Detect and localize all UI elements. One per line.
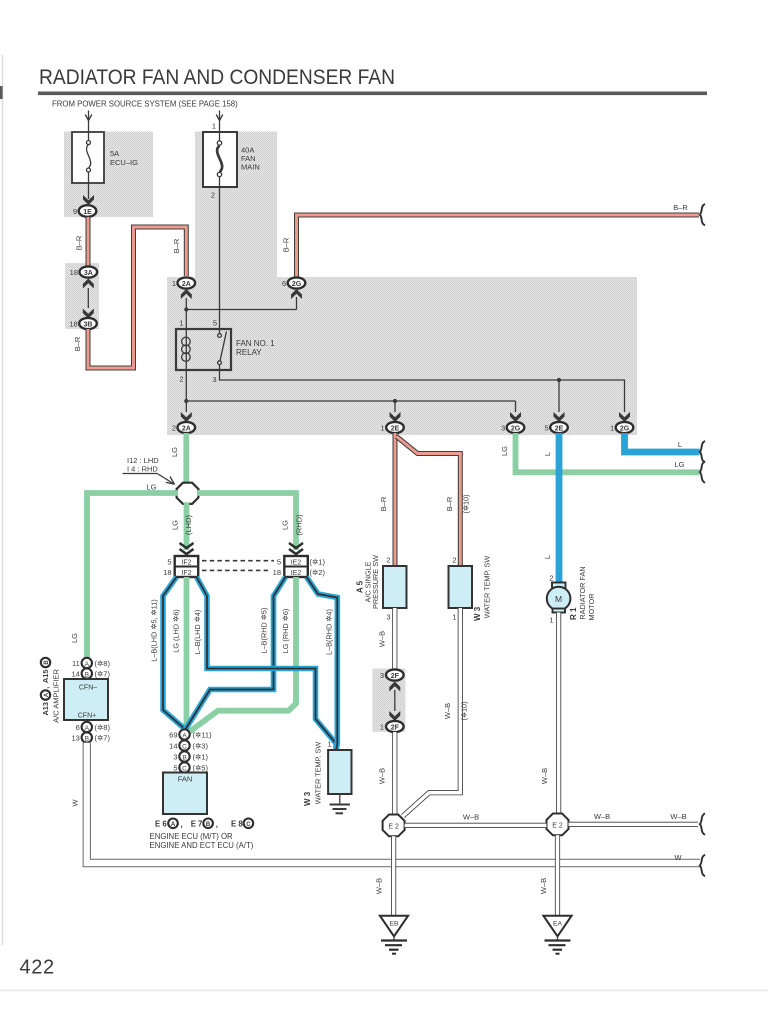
svg-text:1: 1 (380, 723, 384, 732)
svg-text:W–B: W–B (540, 768, 549, 784)
svg-text:5: 5 (213, 319, 217, 328)
svg-text:L: L (543, 555, 552, 559)
svg-text:6: 6 (282, 279, 286, 288)
wire LG octagon left to A/C amplifier (87, 493, 178, 658)
svg-text:(✲2): (✲2) (310, 568, 326, 577)
wire relay pin2 down to 2A pin2 with branch to 2G pin3 (186, 370, 515, 412)
svg-text:FAN NO. 1: FAN NO. 1 (236, 339, 275, 348)
svg-text:W–B: W–B (463, 813, 479, 822)
shade behind 2F connectors (372, 669, 405, 732)
connector 2A pin 2 (178, 422, 196, 433)
wire W-B 2F pin1 to E2 (392, 732, 397, 815)
wire 2A pin1 to relay pin 1 with junction to 2G pin 6 (186, 297, 296, 329)
svg-text:A: A (85, 725, 90, 732)
fuse 40A FAN MAIN (203, 132, 237, 187)
svg-text:W–B: W–B (594, 812, 610, 821)
svg-text:C: C (246, 822, 251, 828)
svg-text:(✲5): (✲5) (193, 764, 209, 773)
wire W-B E2 right to off page (569, 822, 699, 827)
svg-text:W–B: W–B (443, 703, 452, 719)
svg-text:E 2: E 2 (552, 822, 563, 829)
A/C amplifier pin 6 A (82, 722, 92, 732)
svg-text:FAN: FAN (178, 775, 193, 784)
junction node octagon I12/I4 (177, 483, 199, 504)
svg-text:5: 5 (167, 558, 171, 567)
wire LG RHD+6 IE2 to ECU pin A (187, 577, 296, 734)
svg-text:W 3: W 3 (473, 606, 482, 621)
svg-text:2: 2 (386, 556, 390, 565)
W3 water temp switch box lower (328, 750, 351, 794)
svg-text:3: 3 (386, 613, 390, 622)
svg-text:2: 2 (452, 556, 456, 565)
svg-text:E 2: E 2 (388, 823, 399, 830)
svg-text:(✲3): (✲3) (193, 742, 209, 751)
connector 3A (80, 266, 98, 277)
svg-text:3: 3 (501, 424, 505, 433)
svg-text:(✲10): (✲10) (460, 701, 469, 720)
arrow up into 3A (83, 279, 94, 289)
svg-text:3: 3 (212, 375, 216, 384)
wire B-R 2G pin 6 to off page (297, 215, 700, 277)
off page curl LG (700, 461, 705, 482)
svg-text:L: L (678, 440, 682, 449)
svg-text:W–B: W–B (539, 878, 548, 894)
svg-text:EB: EB (389, 921, 399, 928)
svg-text:B: B (85, 671, 89, 678)
svg-text:422: 422 (20, 957, 55, 979)
svg-text:5: 5 (173, 764, 177, 773)
wire L 2G pin1 to off page (625, 433, 700, 452)
wire L-B RHD+4 to water temp switch (307, 577, 338, 750)
svg-text:1: 1 (610, 424, 614, 433)
svg-text:MOTOR: MOTOR (587, 593, 596, 620)
arrow down into 2F pin1 (389, 711, 400, 721)
svg-text:(RHD): (RHD) (295, 514, 304, 536)
svg-text:A/C AMPLIFIER: A/C AMPLIFIER (52, 669, 61, 723)
wire LG octagon right to IE2 (197, 493, 296, 550)
svg-text:69: 69 (169, 731, 177, 740)
svg-text:MAIN: MAIN (241, 163, 260, 172)
ECU pin 14 C (179, 740, 189, 750)
svg-text:L–B(LHD ✲4): L–B(LHD ✲4) (193, 610, 202, 655)
svg-text:WATER TEMP. SW: WATER TEMP. SW (314, 742, 323, 805)
ECU pin 5 C (179, 762, 189, 772)
svg-text:W: W (71, 799, 80, 807)
ECU FAN box (163, 773, 207, 815)
svg-text:LG: LG (170, 447, 179, 457)
svg-text:5A: 5A (110, 149, 119, 158)
svg-text:2G: 2G (511, 425, 521, 432)
svg-text:1: 1 (549, 616, 553, 625)
wire B-R 3B loop to 2A pin 1 (88, 227, 186, 368)
arrow up into 2F pin3 (389, 682, 400, 692)
svg-text:L: L (543, 452, 552, 456)
svg-text:3B: 3B (84, 321, 93, 328)
connector 2F pin 3 (386, 669, 404, 680)
wire W-B motor to E2 (556, 613, 561, 814)
junction dot 2E pin1 branch (393, 399, 397, 403)
A/C amplifier pin 11 A (82, 658, 92, 668)
wire W from A/C amplifier to off page (87, 743, 700, 863)
svg-text:B–R: B–R (445, 496, 454, 511)
svg-text:B–R: B–R (75, 235, 84, 250)
relay coil (182, 329, 191, 370)
arrow down into 2E pin1 (390, 412, 401, 422)
wire L-B RHD+5 (185, 577, 286, 730)
svg-text:E 8: E 8 (231, 819, 243, 828)
wire L-B LHD+4 to water temp switch (197, 577, 337, 750)
arrow up into 2A pin1 bottom (181, 289, 192, 299)
svg-text:1: 1 (452, 613, 456, 622)
svg-text:18: 18 (70, 268, 78, 277)
svg-text:1: 1 (179, 319, 183, 328)
svg-text:W–B: W–B (670, 812, 686, 821)
svg-text:(LHD): (LHD) (184, 514, 193, 535)
off page curl B-R (700, 204, 705, 225)
svg-text:W: W (674, 853, 682, 862)
svg-text:PRESSURE SW: PRESSURE SW (371, 555, 380, 609)
ground EB (380, 916, 408, 954)
svg-text:B: B (206, 822, 211, 828)
svg-text:CFN–: CFN– (79, 685, 97, 692)
node E2 left octagon (383, 815, 405, 837)
svg-text:(✲11): (✲11) (193, 731, 213, 740)
svg-text:18: 18 (273, 568, 281, 577)
svg-text:LG: LG (500, 446, 509, 456)
arrow down into 2G pin1 (619, 412, 630, 422)
svg-text:I 4 : RHD: I 4 : RHD (127, 465, 158, 474)
svg-text:,: , (181, 820, 183, 829)
svg-text:A13: A13 (41, 702, 50, 715)
wire W-B A5 to 2F pin3 (392, 608, 397, 670)
svg-text:18: 18 (163, 568, 171, 577)
off page curl L (700, 441, 705, 462)
svg-text:W–B: W–B (378, 631, 387, 647)
svg-text:LG: LG (70, 633, 79, 643)
svg-text:1: 1 (327, 740, 331, 749)
svg-text:A: A (85, 661, 90, 668)
svg-text:ENGINE AND ECT ECU (A/T): ENGINE AND ECT ECU (A/T) (150, 841, 254, 850)
svg-text:(✲7): (✲7) (95, 734, 111, 743)
junction dot (184, 307, 188, 311)
scan left edge line (2, 55, 4, 945)
svg-text:5: 5 (277, 558, 281, 567)
wire L-B LHD+5+11 (163, 577, 186, 730)
wire W-B W3 to E2 (403, 608, 460, 816)
wire B-R 2E pin1 to A5 pressure switch and W3 water temp switch (393, 433, 398, 566)
svg-text:14: 14 (169, 742, 177, 751)
svg-text:2F: 2F (391, 673, 400, 680)
shade behind 5A fuse (64, 132, 153, 218)
connector 2G pin 3 (507, 422, 525, 433)
A/C amplifier pin 13 B (82, 732, 92, 742)
arrow down into 3B (83, 309, 94, 319)
svg-text:IF2: IF2 (181, 560, 191, 567)
svg-text:6: 6 (76, 723, 80, 732)
connector 2E pin 5 (550, 422, 568, 433)
connector 2F pin 1 (386, 721, 404, 732)
svg-text:WATER TEMP. SW: WATER TEMP. SW (483, 556, 492, 619)
double chevron arrow into IE2 (289, 543, 303, 554)
shade big relay area (167, 277, 637, 435)
wire W-B E2 right to ground EA (555, 835, 560, 916)
connector IE2 (284, 556, 308, 577)
wire B-R 1E to 3A (86, 217, 91, 267)
svg-text:1: 1 (381, 424, 385, 433)
svg-text:LG (LHD ✲6): LG (LHD ✲6) (172, 609, 181, 652)
svg-text:2: 2 (172, 424, 176, 433)
fuse 5A ECU-IG (72, 132, 104, 183)
svg-text:5: 5 (545, 424, 549, 433)
svg-text:(✲1): (✲1) (193, 753, 209, 762)
wire W-B E2 left to ground EB (391, 836, 396, 916)
svg-text:3: 3 (380, 671, 384, 680)
wire 2F3 to 2F1 (394, 690, 396, 711)
svg-text:L–B(RHD ✲4): L–B(RHD ✲4) (325, 609, 334, 655)
arrow into 1E (83, 195, 94, 205)
svg-text:B: B (182, 754, 186, 761)
svg-text:(✲8): (✲8) (95, 723, 111, 732)
svg-text:9: 9 (73, 207, 77, 216)
W3 water temp switch box upper (449, 566, 473, 608)
junction dot 2E pin5 branch (557, 378, 561, 382)
svg-text:W–B: W–B (378, 768, 387, 784)
shade behind 40A fuse (195, 132, 277, 278)
svg-text:ENGINE ECU (M/T) OR: ENGINE ECU (M/T) OR (150, 832, 234, 841)
svg-text:A: A (171, 822, 176, 828)
svg-text:(✲10): (✲10) (462, 494, 471, 513)
note I12 LHD I4 RHD (123, 456, 175, 484)
relay switch (218, 329, 227, 370)
svg-text:C: C (182, 743, 187, 750)
svg-text:A: A (44, 692, 50, 697)
off page curl W (700, 855, 705, 876)
wire W-B between E2 nodes (405, 823, 547, 828)
svg-text:2E: 2E (555, 425, 564, 432)
svg-text:L–B(LHD ✲5, ✲11): L–B(LHD ✲5, ✲11) (150, 599, 159, 661)
connector 3B (79, 318, 97, 329)
dashed links IF2 to IE2 (202, 560, 274, 562)
wire 3A to 3B (87, 288, 89, 308)
A5 A/C single pressure switch box (383, 566, 407, 608)
svg-text:3A: 3A (84, 270, 93, 277)
svg-text:E 6: E 6 (155, 819, 167, 828)
ground EA (543, 916, 571, 954)
wire L 2E pin5 to radiator fan motor (556, 433, 563, 583)
wire LG 2A pin2 to junction octagon (183, 433, 189, 484)
wire from 5A fuse to 1E (88, 183, 90, 199)
connector 1E (79, 205, 97, 217)
ECU pin 69 A (179, 729, 189, 739)
shade behind 3A 3B connectors (65, 263, 99, 329)
svg-text:L–B(RHD ✲5): L–B(RHD ✲5) (260, 608, 269, 654)
A/C amplifier name label A13 A15 (41, 658, 51, 716)
svg-text:2A: 2A (182, 281, 191, 288)
svg-text:2E: 2E (391, 425, 400, 432)
svg-text:RADIATOR FAN: RADIATOR FAN (578, 566, 587, 619)
off page curl W-B (700, 813, 705, 834)
title rule (38, 92, 707, 96)
svg-text:EA: EA (553, 921, 563, 928)
arrow down into 2E pin5 (554, 412, 565, 422)
node E2 right octagon (547, 814, 569, 836)
connector IF2 (175, 556, 199, 577)
radiator fan motor R1 (547, 583, 571, 613)
svg-text:W–B: W–B (375, 878, 384, 894)
connector 2G pin 1 (616, 422, 634, 433)
svg-text:,: , (216, 820, 218, 829)
arrow up into 2G pin6 bottom (291, 289, 302, 299)
svg-text:B–R: B–R (73, 336, 82, 351)
connector 2A pin 1 (178, 277, 196, 288)
wire LG octagon down to IF2 (184, 502, 190, 550)
svg-text:14: 14 (71, 670, 79, 679)
wire 40A fuse to relay pin 5 (219, 187, 221, 329)
svg-text:18: 18 (69, 320, 77, 329)
wire LG LHD+6 IF2 to ECU pin A (184, 577, 190, 730)
ECU pin 3 B (179, 751, 189, 761)
A/C amplifier pin 14 B (82, 668, 92, 678)
A/C amplifier box (64, 679, 108, 720)
svg-text:2F: 2F (391, 724, 400, 731)
svg-text:B–R: B–R (172, 238, 181, 253)
svg-text:C: C (182, 765, 187, 772)
relay FAN NO.1 box (176, 329, 231, 370)
svg-text:2: 2 (179, 375, 183, 384)
svg-text:1: 1 (212, 122, 216, 131)
svg-text:B: B (44, 660, 50, 665)
svg-text:2: 2 (549, 574, 553, 583)
svg-text:LG: LG (146, 483, 156, 492)
svg-text:(✲8): (✲8) (95, 659, 111, 668)
junction dot relay pin2 branch (184, 399, 188, 403)
svg-text:2A: 2A (182, 425, 191, 432)
svg-text:11: 11 (72, 659, 80, 668)
svg-text:A: A (182, 732, 187, 739)
svg-text:A15: A15 (41, 670, 50, 683)
svg-text:R 1: R 1 (569, 607, 578, 620)
svg-text:CFN+: CFN+ (78, 713, 96, 720)
svg-text:E 7: E 7 (191, 819, 203, 828)
svg-text:B–R: B–R (379, 496, 388, 511)
svg-text:B–R: B–R (282, 237, 291, 252)
ECU name E6 E7 E8 (155, 819, 253, 830)
wire relay pin3 to 2G pin1 with branch to 2E pin5 (220, 370, 625, 412)
svg-text:LG: LG (171, 520, 180, 530)
svg-text:LG (RHD ✲6): LG (RHD ✲6) (281, 609, 290, 654)
svg-text:M: M (555, 594, 562, 604)
svg-text:B: B (85, 735, 89, 742)
wire LG 2G pin3 to off page (516, 433, 700, 472)
connector 2G pin 6 (288, 277, 306, 288)
svg-text:2G: 2G (620, 425, 630, 432)
svg-text:13: 13 (71, 734, 79, 743)
svg-text:RELAY: RELAY (236, 348, 262, 357)
svg-text:RADIATOR FAN AND CONDENSER FAN: RADIATOR FAN AND CONDENSER FAN (39, 66, 395, 89)
svg-text:ECU–IG: ECU–IG (110, 158, 138, 167)
ground under W3 lower (330, 794, 350, 813)
svg-text:2: 2 (211, 191, 215, 200)
svg-text:3: 3 (173, 753, 177, 762)
svg-text:2G: 2G (292, 281, 302, 288)
footer rule (0, 990, 768, 992)
svg-text:(✲7): (✲7) (95, 670, 111, 679)
svg-text:LG: LG (674, 460, 684, 469)
svg-text:,: , (42, 687, 51, 689)
svg-text:(✲1): (✲1) (310, 558, 326, 567)
svg-text:LG: LG (281, 520, 290, 530)
arrow down into 2G pin3 (510, 412, 521, 422)
svg-text:1E: 1E (83, 209, 92, 216)
power source arrow into 40A fuse pin 1 (216, 111, 223, 132)
svg-text:IF2: IF2 (181, 570, 191, 577)
connector 2E pin 1 (386, 422, 404, 433)
svg-text:IE2: IE2 (291, 560, 302, 567)
svg-text:FROM POWER SOURCE SYSTEM (SEE: FROM POWER SOURCE SYSTEM (SEE PAGE 158) (52, 100, 238, 109)
double chevron arrow into IF2 (180, 543, 194, 554)
power source arrow into 5A fuse (85, 111, 92, 132)
svg-text:B–R: B–R (673, 203, 688, 212)
arrow down into 2A pin2 (181, 412, 192, 422)
svg-text:W 3: W 3 (303, 791, 312, 806)
svg-text:1: 1 (172, 279, 176, 288)
svg-text:IE2: IE2 (291, 570, 302, 577)
